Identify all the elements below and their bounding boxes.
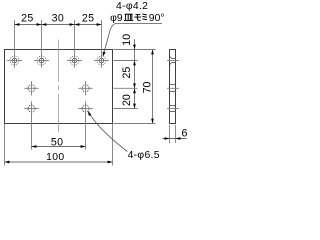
100-dim extension lines xyxy=(5,124,113,166)
50 dimension line xyxy=(32,146,86,148)
hole A2 middle row xyxy=(78,81,92,95)
svg-text:6: 6 xyxy=(181,127,187,139)
chained dim line 10/25/20 xyxy=(134,39,136,108)
countersunk hole H2 top row xyxy=(34,56,49,65)
hole A1 middle row xyxy=(24,81,38,95)
svg-text:25: 25 xyxy=(121,67,133,79)
svg-text:25: 25 xyxy=(21,12,34,24)
svg-text:20: 20 xyxy=(121,94,133,106)
countersunk hole H1 top row xyxy=(7,56,22,65)
leader to hole B2 xyxy=(88,111,127,151)
svg-text:10: 10 xyxy=(121,34,133,46)
side view countersunk section top row xyxy=(167,56,179,65)
side view outline xyxy=(170,50,176,124)
top dimension line xyxy=(15,24,102,26)
top dim extension lines through hole columns xyxy=(15,20,102,68)
katakana mo glyph xyxy=(134,15,141,21)
kanji sara glyph xyxy=(124,14,133,20)
side view section row A xyxy=(167,85,179,92)
svg-text:30: 30 xyxy=(52,12,65,24)
svg-text:50: 50 xyxy=(51,136,64,148)
top dim arrows xyxy=(15,23,102,26)
side view section row B xyxy=(167,106,179,112)
vertical centerline xyxy=(58,40,60,133)
plate outline (front view) xyxy=(5,50,113,124)
countersunk hole H4 top row xyxy=(94,56,109,65)
svg-text:100: 100 xyxy=(46,152,64,163)
6 dimension line outside arrows xyxy=(162,138,186,140)
svg-text:φ9: φ9 xyxy=(110,13,123,24)
svg-text:4-φ6.5: 4-φ6.5 xyxy=(128,150,160,161)
100 dimension line xyxy=(5,161,113,163)
svg-text:25: 25 xyxy=(82,12,95,24)
50-dim extension lines xyxy=(32,101,86,149)
svg-text:4-φ4.2: 4-φ4.2 xyxy=(116,1,148,12)
svg-text:70: 70 xyxy=(141,82,153,94)
leader to countersunk hole H4 xyxy=(103,24,162,56)
svg-text:90°: 90° xyxy=(149,13,165,24)
70 dimension line xyxy=(152,50,154,124)
katakana mi glyph xyxy=(142,14,147,20)
hole B1 lower row xyxy=(24,105,38,112)
hole B2 lower row xyxy=(78,105,92,112)
6-dim extension lines xyxy=(170,125,176,143)
countersunk hole H3 top row xyxy=(67,56,82,65)
right extension lines xyxy=(114,50,156,124)
